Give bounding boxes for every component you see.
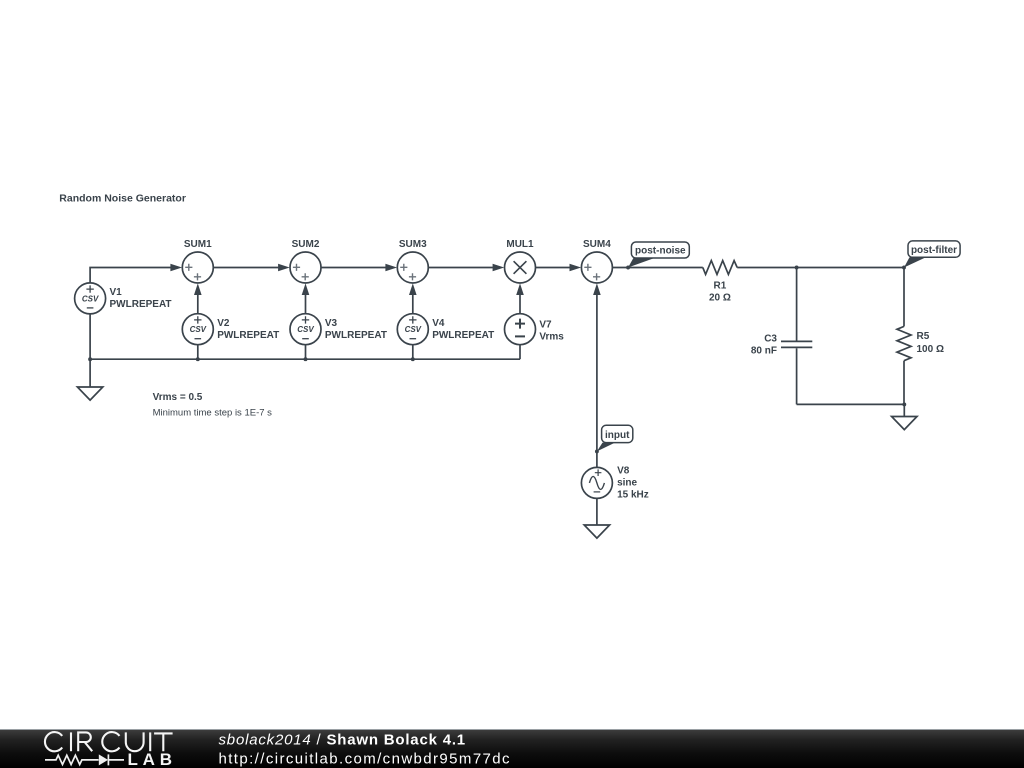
- wire C3 bottom to ground rail: [797, 403, 905, 405]
- svg-text:SUM2: SUM2: [292, 239, 320, 250]
- svg-text:MUL1: MUL1: [506, 239, 534, 250]
- svg-text:CSV: CSV: [297, 325, 314, 334]
- ground (V8): [584, 525, 609, 538]
- wire SUM2 to SUM3: [321, 264, 397, 272]
- voltage source V4 (PWLREPEAT): [397, 314, 494, 345]
- ground (main): [77, 387, 102, 400]
- junction V4 / ground bus: [411, 357, 415, 361]
- svg-text:R5: R5: [917, 331, 930, 342]
- svg-text:R1: R1: [714, 280, 727, 291]
- multiplier block MUL1: [505, 239, 536, 283]
- svg-text:20 Ω: 20 Ω: [709, 292, 731, 303]
- wire SUM1 to SUM2: [213, 264, 289, 272]
- svg-text:PWLREPEAT: PWLREPEAT: [432, 330, 494, 341]
- wire V8 to ground: [596, 498, 598, 525]
- svg-text:sine: sine: [617, 477, 637, 488]
- CircuitLab logo resistor-diode glyph: [45, 754, 124, 765]
- svg-text:sbolack2014 / Shawn Bolack 4.1: sbolack2014 / Shawn Bolack 4.1: [219, 732, 466, 749]
- capacitor C3: [751, 268, 812, 405]
- wire V8 to SUM4 input: [593, 283, 601, 467]
- junction C3 top: [795, 266, 799, 270]
- svg-text:PWLREPEAT: PWLREPEAT: [110, 299, 172, 310]
- footer bar: [0, 729, 1024, 768]
- svg-text:SUM1: SUM1: [184, 239, 212, 250]
- junction V3 / ground bus: [304, 357, 308, 361]
- svg-text:PWLREPEAT: PWLREPEAT: [325, 330, 387, 341]
- svg-text:CSV: CSV: [190, 325, 207, 334]
- wire R1 to post-filter node: [737, 267, 904, 269]
- voltage source V8 (sine): [581, 465, 648, 500]
- wire V3 to summer input: [302, 283, 310, 313]
- junction input: [595, 449, 599, 453]
- voltage source V2 (PWLREPEAT): [182, 314, 279, 345]
- wire MUL1 to SUM4: [536, 264, 582, 272]
- wire V7 to MUL1 input: [516, 283, 524, 313]
- wire V4 to ground bus: [412, 345, 414, 360]
- wire V1 top to SUM1 input: [90, 264, 182, 283]
- svg-text:SUM4: SUM4: [583, 239, 611, 250]
- voltage source V7 (Vrms): [505, 314, 565, 345]
- wire SUM3 to MUL1: [428, 264, 504, 272]
- wire bus to ground symbol: [89, 359, 91, 387]
- node flag post-noise: [628, 242, 689, 268]
- summer block SUM2: [290, 239, 321, 283]
- svg-text:CSV: CSV: [82, 294, 99, 303]
- svg-text:V3: V3: [325, 318, 338, 329]
- wire V1 bottom to ground bus: [89, 314, 91, 359]
- svg-text:CSV: CSV: [405, 325, 422, 334]
- svg-text:Random Noise Generator: Random Noise Generator: [59, 193, 186, 205]
- svg-text:Vrms: Vrms: [539, 331, 564, 342]
- svg-text:Vrms = 0.5: Vrms = 0.5: [153, 392, 203, 403]
- wire V7 bottom to ground bus: [519, 345, 521, 360]
- svg-text:15 kHz: 15 kHz: [617, 489, 649, 500]
- svg-text:SUM3: SUM3: [399, 239, 427, 250]
- node flag post-filter: [904, 241, 960, 268]
- CircuitLab logo CIRCUIT letters: [45, 732, 173, 751]
- svg-text:V1: V1: [110, 287, 123, 298]
- wire to filter ground: [903, 404, 905, 416]
- wire SUM4 output to R1: [612, 267, 702, 269]
- svg-text:LAB: LAB: [128, 750, 177, 768]
- summer block SUM1: [182, 239, 213, 283]
- ground bus wire: [90, 358, 520, 360]
- junction V2 / ground bus: [196, 357, 200, 361]
- svg-text:input: input: [605, 430, 630, 441]
- svg-text:post-filter: post-filter: [911, 245, 957, 256]
- svg-text:V7: V7: [539, 319, 552, 330]
- wire V2 to ground bus: [197, 345, 199, 360]
- node flag input: [597, 425, 633, 451]
- wire V3 to ground bus: [305, 345, 307, 360]
- voltage source V3 (PWLREPEAT): [290, 314, 387, 345]
- junction V1 / ground bus: [88, 357, 92, 361]
- voltage source V1 (PWLREPEAT): [75, 283, 172, 314]
- resistor R5: [897, 268, 944, 405]
- svg-text:V8: V8: [617, 465, 630, 476]
- wire V2 to summer input: [194, 283, 202, 313]
- svg-text:V2: V2: [217, 318, 230, 329]
- svg-text:Minimum time step is 1E-7 s: Minimum time step is 1E-7 s: [153, 407, 273, 418]
- junction post-noise: [626, 266, 630, 270]
- svg-text:PWLREPEAT: PWLREPEAT: [217, 330, 279, 341]
- junction post-filter: [902, 266, 906, 270]
- svg-text:post-noise: post-noise: [635, 246, 686, 257]
- svg-text:http://circuitlab.com/cnwbdr95: http://circuitlab.com/cnwbdr95m77dc: [219, 750, 511, 767]
- svg-text:100 Ω: 100 Ω: [917, 344, 944, 355]
- ground (filter): [892, 417, 917, 430]
- summer block SUM4: [581, 239, 612, 283]
- summer block SUM3: [397, 239, 428, 283]
- svg-text:80 nF: 80 nF: [751, 345, 777, 356]
- resistor R1: [703, 261, 737, 304]
- wire V4 to summer input: [409, 283, 417, 313]
- svg-text:V4: V4: [432, 318, 445, 329]
- junction ground rail: [902, 402, 906, 406]
- svg-text:C3: C3: [764, 334, 777, 345]
